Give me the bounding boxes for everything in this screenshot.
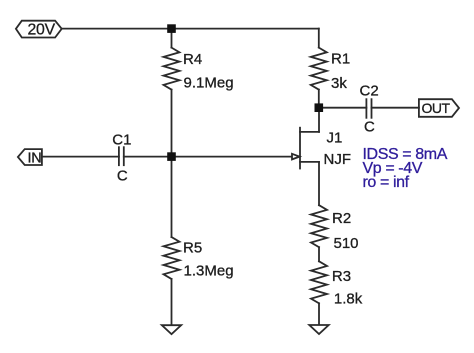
svg-text:R1: R1 — [331, 51, 350, 68]
wire R2 to R3 — [318, 247, 320, 261]
wire R5 bottom lead — [171, 279, 173, 325]
output flag OUT — [419, 99, 459, 117]
wire drain node to C2 — [319, 107, 367, 109]
svg-text:20V: 20V — [27, 21, 55, 38]
wire R1 bottom lead — [318, 90, 320, 108]
transistor J1 gate arrow — [292, 154, 300, 160]
svg-text:R2: R2 — [332, 210, 351, 227]
svg-text:9.1Meg: 9.1Meg — [184, 75, 234, 92]
wire source lead — [318, 162, 320, 205]
svg-text:OUT: OUT — [422, 100, 451, 116]
wire R5 top lead — [171, 157, 173, 237]
svg-text:R4: R4 — [183, 51, 202, 68]
resistor R2 — [311, 205, 327, 247]
wire R3 bottom lead — [318, 303, 320, 325]
node junction gate — [167, 152, 176, 161]
wire top rail — [62, 28, 319, 30]
svg-text:C2: C2 — [360, 83, 379, 100]
transistor J1 source tick — [300, 161, 319, 163]
power flag 20V — [16, 21, 62, 38]
svg-text:3k: 3k — [331, 75, 347, 92]
wire IN to C1 — [42, 156, 119, 158]
wire C2 to OUT — [372, 107, 419, 109]
node junction drain — [315, 103, 324, 112]
svg-text:NJF: NJF — [324, 151, 352, 168]
svg-text:R5: R5 — [183, 239, 202, 256]
capacitor C1 — [119, 147, 124, 165]
resistor R1 — [311, 48, 327, 90]
svg-text:C1: C1 — [112, 132, 131, 149]
svg-text:IN: IN — [28, 151, 42, 167]
svg-text:ro = inf: ro = inf — [363, 174, 410, 191]
resistor R4 — [164, 48, 180, 90]
svg-text:J1: J1 — [327, 130, 343, 147]
transistor J1 drain tick — [300, 131, 319, 133]
node junction top — [167, 24, 176, 33]
svg-text:R3: R3 — [332, 268, 351, 285]
svg-text:C: C — [364, 119, 375, 136]
svg-text:C: C — [117, 168, 128, 185]
transistor J1 channel — [299, 128, 301, 169]
svg-text:1.3Meg: 1.3Meg — [184, 263, 234, 280]
svg-text:510: 510 — [334, 235, 359, 252]
wire C1 to gate — [124, 156, 292, 158]
input flag IN — [18, 149, 42, 165]
wire R1 top lead — [318, 29, 320, 48]
svg-text:1.8k: 1.8k — [334, 290, 363, 307]
wire drain lead — [318, 108, 320, 132]
capacitor C2 — [366, 99, 371, 118]
ground right — [309, 325, 328, 334]
ground left — [162, 325, 181, 334]
resistor R5 — [164, 237, 180, 279]
wire R4 top lead — [171, 29, 173, 48]
resistor R3 — [311, 261, 327, 303]
wire R4 bottom lead — [171, 90, 173, 157]
